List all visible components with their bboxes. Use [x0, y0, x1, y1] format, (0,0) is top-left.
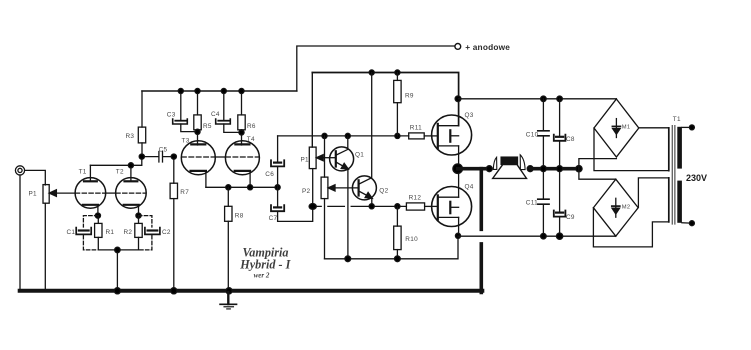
- dashed box around C1: [83, 216, 98, 250]
- svg-text:T3: T3: [182, 137, 190, 144]
- ground rail thick: [20, 289, 483, 293]
- svg-text:+ anodowe: + anodowe: [465, 42, 510, 52]
- node R3 C5: [139, 154, 144, 159]
- node rail C3: [178, 88, 183, 93]
- node primary top terminal: [689, 125, 694, 130]
- capacitor C1: [76, 228, 91, 235]
- tube T3: [181, 141, 215, 188]
- wire T1 T2 grids link: [105, 192, 116, 194]
- svg-text:C8: C8: [566, 136, 575, 143]
- svg-text:C10: C10: [526, 132, 539, 139]
- node T1 cathode: [95, 213, 100, 218]
- P2 wiper arrow: [328, 185, 358, 191]
- node Q1 collector: [345, 133, 350, 138]
- P1 wiper arrow: [49, 190, 75, 197]
- svg-text:P1: P1: [29, 191, 38, 198]
- svg-text:P1: P1: [301, 157, 310, 164]
- tube T2: [116, 165, 147, 215]
- node T4 cathode: [248, 185, 253, 190]
- svg-text:P2: P2: [302, 188, 311, 195]
- capacitor C8: [554, 99, 566, 169]
- node R5 C3: [195, 129, 200, 134]
- P1 wiper arrow: [316, 155, 335, 161]
- mosfet Q3: [432, 115, 472, 169]
- node C6 C7 cathode junction: [275, 185, 280, 190]
- wire mid supply rail: [312, 73, 458, 126]
- node ground R7: [171, 288, 177, 294]
- svg-text:C6: C6: [265, 171, 274, 178]
- node mid rail C8: [557, 166, 563, 172]
- trimmer P2: [321, 136, 328, 259]
- resistor R1: [95, 216, 102, 250]
- capacitor C10: [538, 99, 549, 169]
- capacitor C3: [173, 91, 198, 132]
- wire speaker to psu mid thick: [530, 167, 579, 171]
- svg-text:Q2: Q2: [379, 187, 388, 194]
- resistor R10: [394, 206, 401, 258]
- node ground T1T2: [114, 288, 120, 294]
- node P2 riser: [322, 133, 327, 138]
- wire M1 ac left to winding: [594, 128, 669, 171]
- capacitor C6: [271, 136, 284, 187]
- node R10 top: [395, 204, 400, 209]
- resistor R3: [138, 91, 145, 157]
- svg-text:Q3: Q3: [465, 112, 474, 119]
- gate line to Q4 with hops: [316, 205, 406, 207]
- resistor R11: [409, 133, 438, 139]
- svg-text:R2: R2: [124, 229, 133, 236]
- svg-text:C4: C4: [211, 111, 220, 118]
- svg-text:M1: M1: [622, 125, 631, 131]
- transformer T1 core: [672, 126, 675, 225]
- node Q2 emitter: [369, 204, 374, 209]
- mosfet Q4: [432, 169, 472, 236]
- trimmer P1: [309, 147, 316, 206]
- node speaker right: [527, 166, 533, 172]
- input jack P1 connector: [15, 166, 24, 175]
- bridge rectifier M2: [593, 179, 638, 236]
- node speaker left: [486, 166, 492, 172]
- wire cathode bottoms to ground: [98, 250, 138, 290]
- node T2 cathode: [136, 213, 141, 218]
- node Q4 source: [455, 233, 460, 238]
- svg-text:R6: R6: [247, 123, 256, 130]
- node Q3 drain psu: [455, 96, 461, 102]
- wire anode supply rail left: [142, 90, 297, 92]
- transistor Q1: [330, 136, 354, 259]
- terminal + anodowe: [455, 44, 461, 50]
- capacitor C2: [145, 228, 160, 235]
- node rail R5: [195, 88, 200, 93]
- node rail R6: [239, 88, 244, 93]
- svg-text:C11: C11: [526, 200, 538, 207]
- node T2 anode: [128, 163, 133, 168]
- transformer T1 secondary windings: [668, 128, 670, 222]
- node R8 top: [226, 185, 231, 190]
- transformer T1 primary winding bars: [677, 127, 682, 223]
- svg-text:R11: R11: [410, 125, 422, 132]
- resistor R8: [225, 187, 232, 289]
- node rail C4: [221, 88, 226, 93]
- wire primary top lead: [682, 126, 690, 128]
- svg-text:R10: R10: [405, 236, 418, 243]
- svg-text:R9: R9: [405, 92, 414, 99]
- node C5 R7 T3 grid: [171, 154, 176, 159]
- node rail Q2 collector: [369, 70, 374, 75]
- wire T3 T4 cathode line: [206, 186, 278, 188]
- svg-text:M2: M2: [622, 205, 631, 211]
- wire jog to M2 plus: [579, 169, 616, 180]
- node output big: [453, 164, 463, 174]
- potentiometer P1: [43, 185, 49, 290]
- node top rail C10: [541, 96, 547, 102]
- wire jog to M1 minus: [579, 159, 617, 169]
- node top rail C8: [557, 96, 563, 102]
- node ground R8: [226, 288, 232, 294]
- resistor R7: [170, 157, 177, 290]
- wire rail corner down to P1 trimmer: [311, 73, 313, 148]
- node lower rail R10: [395, 256, 401, 262]
- svg-text:C3: C3: [167, 112, 176, 119]
- resistor R5: [194, 91, 201, 145]
- svg-text:R1: R1: [106, 229, 115, 236]
- wire psu top rail: [459, 98, 617, 100]
- wire bottom rail psu: [458, 235, 616, 237]
- svg-text:R8: R8: [235, 212, 244, 219]
- wire M2 ac right to winding: [638, 178, 668, 208]
- svg-text:Hybrid - I: Hybrid - I: [239, 258, 291, 272]
- wire bias line C6 to R11: [278, 135, 409, 137]
- svg-text:R5: R5: [203, 123, 212, 130]
- svg-text:C9: C9: [566, 214, 575, 221]
- svg-text:C1: C1: [67, 229, 76, 236]
- wire anodowe feed: [297, 46, 455, 91]
- capacitor C7: [271, 187, 313, 221]
- svg-text:T2: T2: [116, 169, 124, 176]
- node bottom rail C11: [541, 233, 547, 239]
- wire jack sleeve to ground: [19, 175, 21, 290]
- svg-text:wer 2: wer 2: [254, 272, 270, 280]
- svg-text:T4: T4: [247, 136, 255, 143]
- resistor R2: [135, 216, 142, 250]
- bridge rectifier M1: [594, 99, 639, 157]
- wire M2 ac left to winding: [593, 208, 668, 247]
- node mid rail bridge jog: [576, 166, 582, 172]
- wire output thick to speaker: [458, 167, 490, 171]
- wire T3 T4 link: [215, 156, 226, 158]
- wire primary bottom lead: [682, 222, 690, 224]
- wire jack to P1 top: [25, 170, 46, 185]
- capacitor C11: [538, 169, 549, 237]
- svg-text:T1: T1: [79, 169, 87, 176]
- node R6 C4: [239, 130, 244, 135]
- svg-text:R3: R3: [126, 133, 135, 140]
- tube T1: [75, 165, 106, 215]
- node lower rail Q1 emitter: [345, 256, 351, 262]
- wire T1 T2 anodes to R3 node: [90, 157, 141, 166]
- svg-text:T1: T1: [673, 116, 681, 123]
- svg-text:230V: 230V: [686, 173, 707, 183]
- svg-text:Q1: Q1: [355, 152, 364, 159]
- capacitor C4: [216, 91, 242, 132]
- capacitor C5: [142, 152, 174, 163]
- resistor R9: [394, 73, 401, 136]
- node rail R9: [395, 70, 400, 75]
- dashed box around C2: [139, 216, 152, 250]
- wire output drop to ground thick with hop: [479, 169, 483, 293]
- wire lower rail P2 Q1 R10: [325, 236, 459, 259]
- node cathode bottom: [115, 247, 121, 253]
- svg-text:C7: C7: [269, 215, 278, 222]
- capacitor C9: [554, 169, 566, 237]
- node R9 bottom: [395, 133, 400, 138]
- node P1 bottom C7 R12 line: [309, 204, 316, 210]
- svg-text:C2: C2: [162, 229, 171, 236]
- node mid rail C10: [540, 166, 546, 172]
- svg-text:R7: R7: [180, 189, 189, 196]
- tube T4: [225, 141, 259, 188]
- resistor R6: [238, 91, 245, 145]
- resistor R12: [406, 203, 437, 210]
- node primary bottom terminal: [689, 221, 694, 226]
- node bottom rail C9: [556, 233, 562, 239]
- wire M1 ac right to winding: [639, 127, 669, 129]
- svg-text:C5: C5: [159, 147, 168, 154]
- transistor Q2: [352, 73, 376, 207]
- svg-text:R12: R12: [409, 195, 422, 202]
- ground symbol: [220, 292, 236, 309]
- speaker LS: [493, 155, 527, 179]
- svg-text:Q4: Q4: [465, 183, 474, 190]
